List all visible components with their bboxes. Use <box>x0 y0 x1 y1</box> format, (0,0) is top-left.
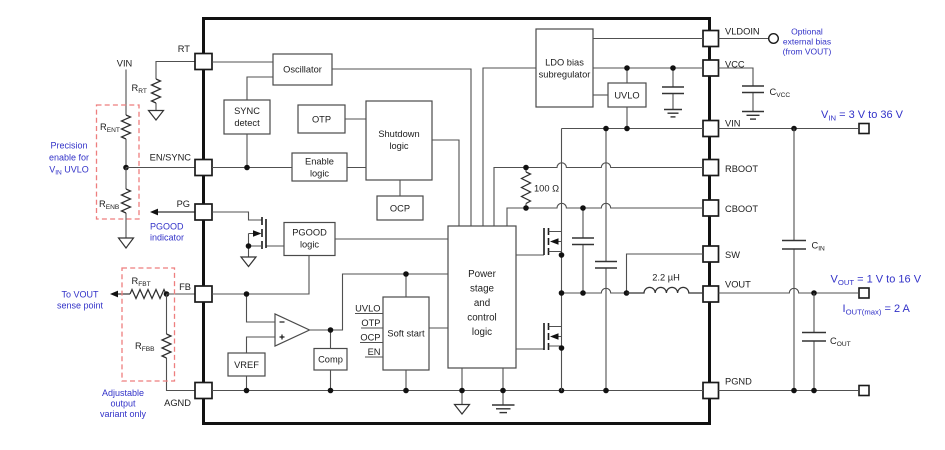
ground (RRT) <box>149 111 164 121</box>
wire FB node to FB pin <box>167 293 196 295</box>
node PGND-CIN <box>791 388 797 394</box>
wire SW node to inductor tap <box>562 288 627 293</box>
node gnd-VREF <box>244 388 250 394</box>
wire soft start top to comp line <box>405 274 407 297</box>
svg-text:EN/SYNC: EN/SYNC <box>150 153 192 163</box>
svg-text:detect: detect <box>234 118 260 128</box>
svg-text:LDO bias: LDO bias <box>545 58 584 68</box>
resistor RENT <box>100 115 131 139</box>
svg-text:PGND: PGND <box>725 377 752 387</box>
shutdown logic block <box>366 101 432 180</box>
svg-text:enable for: enable for <box>49 153 89 163</box>
ground (analog, triangle) <box>455 405 470 415</box>
wire VIN rail internal <box>562 128 704 130</box>
node VCC-UVLO junction <box>624 65 630 71</box>
svg-text:logic: logic <box>300 240 319 250</box>
ground (CVCC, earth) <box>742 112 764 120</box>
svg-text:Precision: Precision <box>50 141 87 151</box>
svg-text:AGND: AGND <box>164 398 191 408</box>
pin RT <box>178 44 212 70</box>
oscillator block <box>273 54 332 85</box>
internal ground bus <box>212 390 703 392</box>
pin EN/SYNC <box>150 153 212 176</box>
wire comp to ground bus <box>330 370 332 391</box>
node gnd-fet <box>559 388 565 394</box>
note precision enable <box>49 141 89 177</box>
note to VOUT sense point <box>57 290 104 311</box>
svg-text:Soft start: Soft start <box>387 329 425 339</box>
UVLO block <box>608 83 646 107</box>
ground (power, earth) <box>492 405 515 413</box>
note optional external bias <box>783 26 832 56</box>
enable logic block <box>292 153 347 181</box>
wire comp to output node <box>330 330 332 349</box>
wire power stage to power ground <box>502 368 504 405</box>
wire VREF to ground bus <box>246 376 248 391</box>
resistor RRT <box>132 79 161 111</box>
terminal external bias (circle) <box>769 34 779 44</box>
node PGND-COUT <box>811 388 817 394</box>
wire node to EN/SYNC pin <box>126 167 195 169</box>
pin RBOOT <box>703 160 758 176</box>
wire RT pin to oscillator <box>212 61 273 63</box>
wire VIN external <box>719 128 859 130</box>
resistor RFBT <box>130 276 166 299</box>
node VIN-decap junction <box>603 126 609 132</box>
wire SW pin route <box>627 254 704 293</box>
svg-text:UVLO: UVLO <box>614 91 639 101</box>
enable divider outline box (red dashed) <box>97 105 140 219</box>
ground (VIN divider) <box>119 238 134 248</box>
svg-text:VIN: VIN <box>725 119 741 129</box>
note VIN range <box>821 109 904 123</box>
node FB external <box>164 291 170 297</box>
transistor low-side FET <box>516 323 564 351</box>
svg-text:EN: EN <box>368 347 381 357</box>
node VOUT-COUT <box>811 290 817 296</box>
pin CBOOT <box>703 200 758 216</box>
note PGOOD indicator <box>150 222 184 243</box>
wire PGOOD logic to pgood fet gate <box>266 245 284 247</box>
node CBOOT-resistor junction <box>523 205 529 211</box>
PGOOD logic block <box>284 223 335 256</box>
wire switch node column <box>561 129 563 391</box>
node FB-amp junction <box>244 291 250 297</box>
svg-text:To VOUT: To VOUT <box>61 290 99 300</box>
svg-text:FB: FB <box>179 282 191 292</box>
svg-text:external bias: external bias <box>783 36 831 46</box>
wire FB pin to PGOOD logic <box>212 256 309 295</box>
wire shutdown logic to OCP <box>399 180 401 196</box>
OCP block <box>377 196 423 220</box>
capacitor COUT <box>802 293 851 391</box>
pin PGND <box>703 377 752 399</box>
svg-text:(from VOUT): (from VOUT) <box>783 46 832 56</box>
svg-text:variant only: variant only <box>100 409 147 419</box>
svg-text:logic: logic <box>472 327 492 338</box>
pin AGND <box>164 383 212 409</box>
node soft start junction <box>403 271 409 277</box>
svg-text:Comp: Comp <box>318 355 343 365</box>
wire EN/SYNC pin to enable logic <box>212 167 292 169</box>
svg-text:Optional: Optional <box>791 26 823 36</box>
soft start input EN <box>365 347 383 357</box>
comp block <box>314 349 347 371</box>
svg-text:indicator: indicator <box>150 233 184 243</box>
capacitor CBOOT (bootstrap) <box>572 208 594 293</box>
svg-text:and: and <box>474 298 490 309</box>
node CBOOT-cap junction <box>580 205 586 211</box>
wire LDO to UVLO <box>593 94 608 96</box>
wire oscillator to SYNC detect <box>247 77 273 100</box>
svg-text:OTP: OTP <box>312 115 331 125</box>
svg-text:PGOOD: PGOOD <box>150 222 184 232</box>
svg-text:OCP: OCP <box>390 204 410 214</box>
svg-text:logic: logic <box>310 169 329 179</box>
wire CBOOT line <box>507 203 703 226</box>
resistor RFBB <box>135 294 195 391</box>
svg-text:RBOOT: RBOOT <box>725 164 758 174</box>
node inductor-SW junction <box>624 290 630 296</box>
svg-text:RT: RT <box>178 44 191 54</box>
wire PGND external <box>719 390 859 392</box>
junction dots internal <box>244 65 676 393</box>
wire VIN to RENT <box>125 70 127 116</box>
svg-text:2.2 µH: 2.2 µH <box>652 273 680 283</box>
wire soft start to power stage <box>429 327 448 329</box>
wire LDO to VLDOIN pin <box>593 38 703 40</box>
node gnd-comp <box>328 388 334 394</box>
transistor high-side FET <box>516 228 564 258</box>
wire power stage to analog ground <box>461 368 463 405</box>
svg-text:Shutdown: Shutdown <box>378 129 419 139</box>
svg-text:100 Ω: 100 Ω <box>534 184 559 194</box>
terminal VIN <box>859 124 869 134</box>
terminal VOUT <box>859 288 869 298</box>
wire RT pin to RRT <box>156 62 195 80</box>
wire FB node to op-amp inverting input <box>247 294 276 322</box>
error amplifier op-amp <box>275 314 310 346</box>
node gnd-soft-start <box>403 388 409 394</box>
svg-text:subregulator: subregulator <box>539 70 591 80</box>
svg-text:control: control <box>467 313 496 324</box>
wire oscillator to power stage <box>332 69 471 226</box>
svg-text:CBOOT: CBOOT <box>725 204 758 214</box>
svg-text:PG: PG <box>177 199 190 209</box>
node bootstrap cap bottom <box>580 290 586 296</box>
wire UVLO to VIN rail <box>626 107 628 129</box>
pin PG <box>177 199 212 220</box>
inductor 2.2uH <box>627 273 704 294</box>
node SW tap <box>559 290 565 296</box>
terminal PGND <box>859 386 869 396</box>
wire OTP to shutdown logic <box>345 118 366 120</box>
node SYNC/EN junction <box>244 165 250 171</box>
node gnd-decap <box>603 388 609 394</box>
wire RENT to node EN <box>125 139 127 168</box>
wire op-amp output to power stage <box>310 274 449 330</box>
VREF block <box>228 353 265 376</box>
node VIN (label) <box>117 59 133 69</box>
pin VOUT <box>703 280 751 303</box>
wire PG pin to pgood fet drain <box>212 212 262 220</box>
LDO bias subregulator block <box>536 29 593 107</box>
note adjustable output <box>100 388 147 419</box>
wire VCC to CVCC <box>719 68 754 111</box>
svg-text:SYNC: SYNC <box>234 106 260 116</box>
node gnd-power-stage-a <box>459 388 465 394</box>
svg-text:Oscillator: Oscillator <box>283 65 322 75</box>
capacitor CIN <box>782 129 825 391</box>
svg-text:Enable: Enable <box>305 157 334 167</box>
pin VLDOIN <box>703 27 760 47</box>
svg-text:logic: logic <box>389 141 408 151</box>
svg-text:Adjustable: Adjustable <box>102 388 144 398</box>
OTP block <box>298 105 345 133</box>
node RBOOT-resistor junction <box>523 165 529 171</box>
capacitor CVCC <box>742 86 764 93</box>
pin VCC <box>703 60 745 77</box>
resistor 100 ohm <box>522 168 560 209</box>
svg-text:SW: SW <box>725 250 740 260</box>
wire VREF to op-amp non-inverting input <box>247 337 276 353</box>
note VOUT range <box>831 274 922 288</box>
svg-text:UVLO: UVLO <box>355 304 380 314</box>
wire shutdown logic to power stage <box>432 140 459 226</box>
svg-text:OCP: OCP <box>360 333 380 343</box>
svg-text:VLDOIN: VLDOIN <box>725 27 760 37</box>
node UVLO-VIN junction <box>624 126 630 132</box>
wire PGOOD logic to power stage <box>335 238 448 240</box>
SYNC detect block <box>224 100 270 134</box>
wire SYNC detect to EN node <box>246 134 248 168</box>
svg-text:stage: stage <box>470 284 495 295</box>
svg-text:PGOOD: PGOOD <box>292 228 327 238</box>
node VIN-CIN <box>791 126 797 132</box>
pin VIN <box>703 119 741 137</box>
capacitor VIN decoupling <box>595 129 617 391</box>
svg-text:Power: Power <box>468 269 497 280</box>
wire UVLO to VCC rail <box>626 68 628 83</box>
ground (VCC internal cap, earth) <box>664 110 682 117</box>
To VOUT sense arrow <box>110 291 130 298</box>
node gnd-power-stage-b <box>500 388 506 394</box>
svg-text:OTP: OTP <box>361 318 380 328</box>
soft start input OTP <box>361 318 383 328</box>
pin FB <box>179 282 212 302</box>
svg-text:VOUT: VOUT <box>725 280 751 290</box>
wire LDO bias to power stage <box>483 68 536 226</box>
soft start input UVLO <box>355 304 383 314</box>
wire soft start to ground bus <box>405 370 407 391</box>
pin SW <box>703 246 740 262</box>
capacitor VCC internal decoupling <box>662 68 684 109</box>
soft start input OCP <box>360 333 383 343</box>
wire VOUT external <box>719 288 859 293</box>
soft start block <box>383 297 429 370</box>
wire LDO to VCC pin <box>593 67 703 69</box>
wire enable logic to shutdown logic <box>347 167 366 169</box>
svg-text:sense point: sense point <box>57 301 104 311</box>
note IOUT max <box>843 303 911 317</box>
svg-text:VIN: VIN <box>117 59 133 69</box>
module boundary <box>204 19 710 424</box>
node EN divider junction <box>123 165 129 171</box>
svg-text:VREF: VREF <box>234 360 259 370</box>
PG output arrow <box>150 209 195 216</box>
power stage and control logic block <box>448 226 516 368</box>
node comp junction <box>328 327 334 333</box>
transistor PGOOD pull-down <box>212 212 284 257</box>
ground (pgood fet, triangle) <box>241 257 256 267</box>
wire VLDOIN to external bias <box>719 38 769 40</box>
svg-text:output: output <box>110 399 136 409</box>
feedback divider outline box (red dashed) <box>122 268 175 381</box>
node VCC-cap junction <box>670 65 676 71</box>
resistor RENB <box>99 168 131 239</box>
wire RBOOT line <box>494 163 703 226</box>
